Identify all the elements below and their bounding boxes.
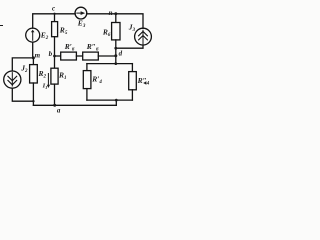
wire top-left from corner to E3 <box>33 14 75 28</box>
wire E2 bottom to node m <box>32 42 34 58</box>
current source J3 <box>135 28 152 45</box>
wire R5 bottom to node b <box>54 37 56 56</box>
wire lower row down to R'4 <box>86 64 88 71</box>
wire bottom bus <box>33 104 116 106</box>
svg-text:d: d <box>119 50 123 58</box>
wire R1 bottom to node a <box>54 84 56 105</box>
wire R6 bottom through d to lower row <box>115 40 117 64</box>
svg-text:n: n <box>109 9 113 17</box>
wire lower row down to R''4 <box>131 64 133 72</box>
wire E3 to corner and down to J3 <box>87 14 143 28</box>
node b <box>53 55 56 58</box>
current arrow I1 <box>47 74 50 89</box>
node J2-R2 junction <box>32 100 34 102</box>
wire J3 return <box>116 45 143 48</box>
resistor R'6 <box>61 52 77 60</box>
wire R'4 bottom to joint line <box>86 89 88 101</box>
resistor R1 <box>51 68 58 84</box>
svg-text:b: b <box>49 50 53 58</box>
wire b to R'6 <box>55 55 61 57</box>
svg-text:m: m <box>35 51 41 59</box>
wire R'6 to R''6 <box>76 55 82 57</box>
resistor R6 <box>112 23 120 40</box>
node a <box>53 104 56 107</box>
svg-text:a: a <box>57 106 61 114</box>
node m <box>32 56 35 59</box>
resistor R'4 <box>83 71 91 89</box>
node d <box>114 54 117 57</box>
stray mark left edge <box>0 25 3 27</box>
stray mark near R''4 <box>143 81 146 84</box>
current source J2 <box>4 71 21 88</box>
node J3-return junction <box>114 47 117 50</box>
node n <box>114 12 117 15</box>
wire R''4 bottom to joint line <box>131 90 133 100</box>
resistor R2 <box>30 65 38 83</box>
voltage source E3 <box>75 7 87 19</box>
wire node c down to R5 <box>54 14 56 22</box>
wire lower row d-branch <box>87 63 132 65</box>
wire joint line y100 <box>87 99 132 101</box>
wire node n down to R6 <box>115 14 117 23</box>
wire m down to R2 <box>32 58 34 65</box>
wire stub joint to bus <box>115 100 117 105</box>
voltage source E2 <box>26 28 40 42</box>
wire node b down to R1 <box>54 56 56 68</box>
node R4 joint <box>115 99 118 102</box>
resistor R5 <box>52 22 58 37</box>
resistor R''6 <box>83 52 99 60</box>
wire R''6 to node d <box>98 55 116 57</box>
node c <box>53 13 55 15</box>
node lower-row junction <box>114 62 117 65</box>
wire J2 bottom to R2 line <box>12 88 33 101</box>
svg-text:c: c <box>52 5 55 13</box>
wire node m to J2 <box>12 58 33 71</box>
wire R2 bottom to bus <box>32 83 34 105</box>
resistor R''4 <box>129 72 137 90</box>
